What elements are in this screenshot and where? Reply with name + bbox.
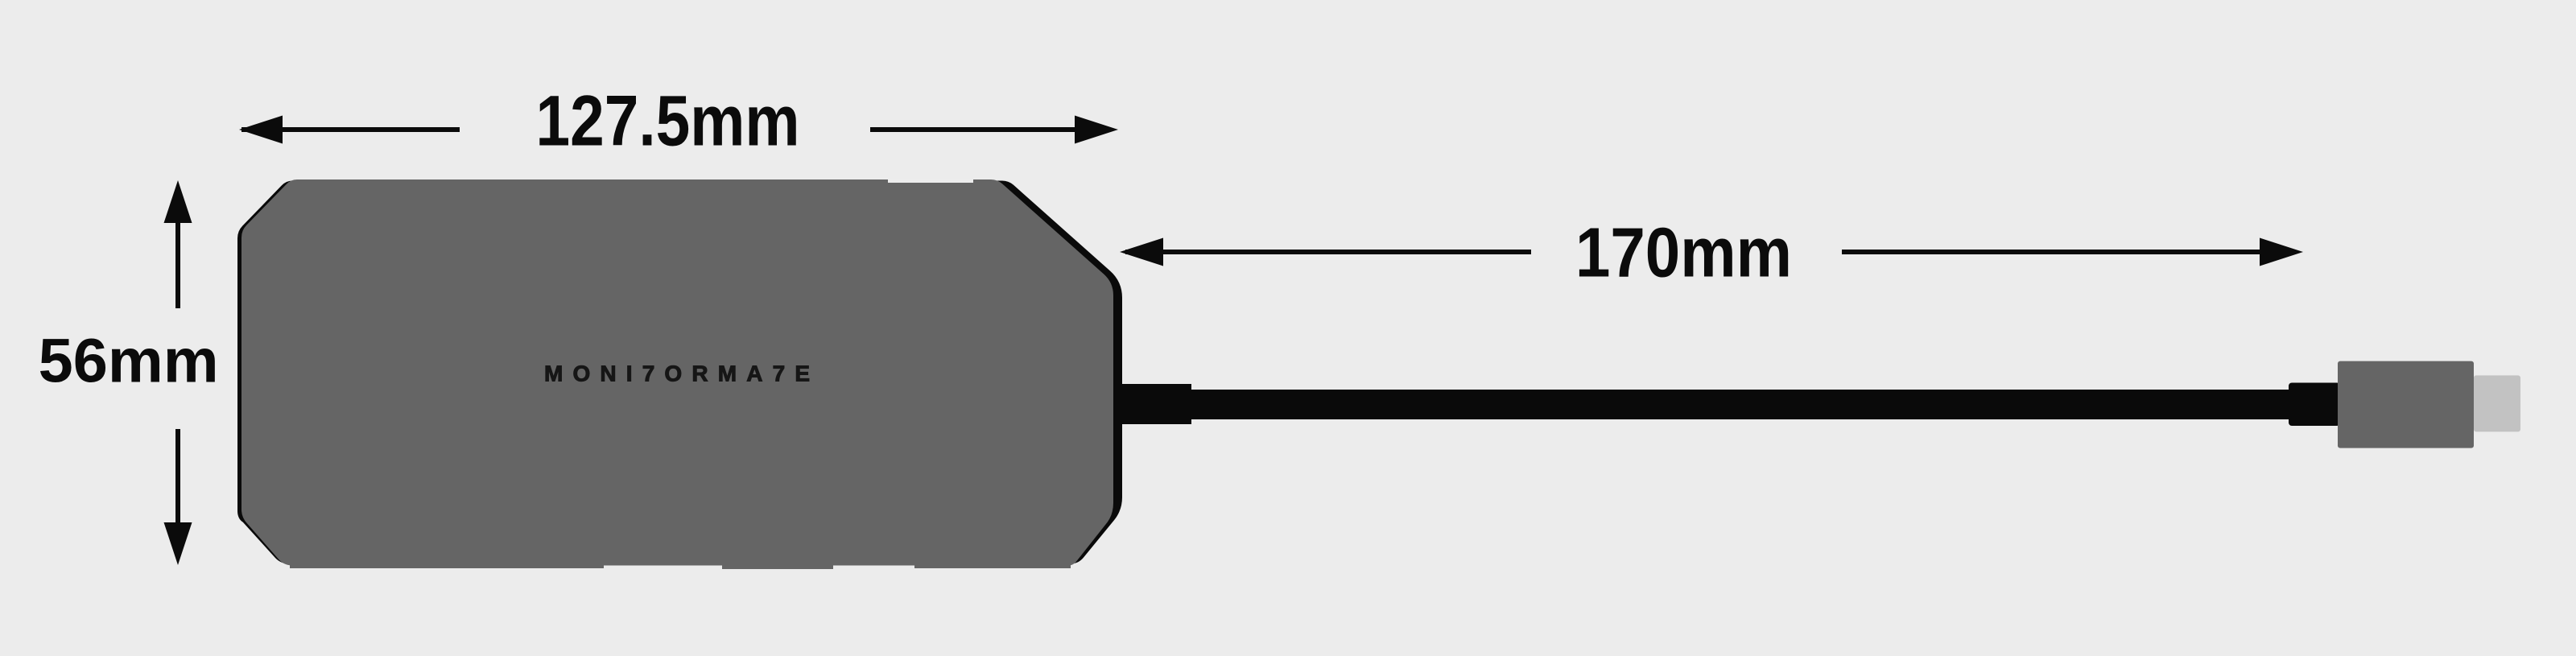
left dimension: 56mm [39,180,219,565]
connector body [2338,361,2474,448]
hub body top surface (gray) [242,179,1113,566]
top dimension: 127.5mm [239,80,1118,161]
bottom edge tabs [290,563,604,568]
connector tip [2474,375,2520,431]
cable [1190,390,2289,419]
svg-text:56mm: 56mm [39,327,219,396]
right dimension: 170mm [1120,214,2303,292]
connector boot [2289,383,2340,427]
svg-text:170mm: 170mm [1575,214,1792,292]
svg-text:127.5mm: 127.5mm [536,80,800,161]
hub body outline (black, offset wider) [237,181,1122,564]
cable strain relief stub [1117,384,1191,424]
top edge notch [888,179,973,183]
